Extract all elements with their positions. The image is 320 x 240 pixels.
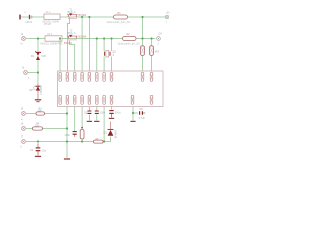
svg-text:4,7uF: 4,7uF bbox=[139, 117, 146, 120]
svg-text:C3: C3 bbox=[84, 112, 88, 115]
fuse F1 cell symbol bbox=[24, 11, 32, 24]
junction row2 x38 bbox=[37, 37, 39, 39]
svg-text:D1: D1 bbox=[31, 55, 35, 58]
wire row y113 bbox=[26, 113, 67, 115]
svg-text:4k7: 4k7 bbox=[155, 51, 160, 54]
wire row y141 bbox=[26, 137, 111, 142]
wire vertical x111 bbox=[111, 39, 113, 72]
resistor R7 vertical x142 bbox=[141, 46, 145, 56]
junction row2 x151 bbox=[150, 37, 152, 39]
ground GND7 x133 bbox=[130, 120, 135, 122]
svg-text:X2-1: X2-1 bbox=[47, 33, 53, 36]
crystal Q2 bbox=[105, 50, 117, 57]
svg-text:R2: R2 bbox=[127, 33, 131, 36]
junction node x38 y72 bbox=[37, 71, 39, 73]
connector X2 box bbox=[41, 33, 63, 46]
capacitor C1 polarized bbox=[30, 144, 47, 156]
svg-text:BSS84: BSS84 bbox=[79, 36, 87, 39]
ground GND6 x111 bbox=[109, 117, 114, 119]
svg-text:J6: J6 bbox=[21, 122, 24, 125]
junction x82 y141 bbox=[81, 140, 83, 142]
svg-text:In: In bbox=[21, 43, 24, 46]
svg-text:1N4148: 1N4148 bbox=[114, 130, 117, 139]
wire bottom net x67 bbox=[66, 107, 68, 159]
resistor R4 row y128 bbox=[33, 122, 43, 130]
resistor R3 row y113 bbox=[36, 107, 45, 115]
resistor R6 row y141 bbox=[94, 138, 104, 143]
svg-text:LiPo4: LiPo4 bbox=[26, 21, 33, 24]
battery terminal BAT bbox=[19, 15, 21, 20]
svg-text:1: 1 bbox=[166, 21, 168, 24]
wire vertical x104 bbox=[103, 39, 105, 72]
svg-text:BSS84: BSS84 bbox=[64, 42, 72, 45]
wire row1 horizontal bbox=[21, 16, 165, 18]
svg-text:D2: D2 bbox=[30, 89, 34, 92]
wire column x133 bbox=[133, 107, 138, 121]
ground GND3 x67 bbox=[64, 158, 70, 160]
junction x67 y113 bbox=[66, 112, 68, 114]
svg-text:b: b bbox=[21, 146, 23, 149]
svg-text:Optocoupler_4pin_SO: Optocoupler_4pin_SO bbox=[107, 21, 131, 24]
transistor T2 bbox=[64, 30, 87, 45]
junction row1 x82 bbox=[81, 16, 83, 18]
supply pin P1 top right bbox=[165, 12, 170, 24]
junction x104 y141 bbox=[103, 140, 105, 142]
wire cap lead x97 low bbox=[96, 115, 98, 121]
connector pin J6 bbox=[21, 122, 26, 130]
resistor R5 vertical x82 bbox=[80, 127, 84, 139]
transistor T1 bbox=[67, 8, 87, 18]
junction row2 x60 bbox=[59, 37, 61, 39]
wire vertical x97 bbox=[96, 39, 98, 72]
junction row2 x104 bbox=[103, 37, 105, 39]
zener diode D1 bbox=[31, 51, 47, 60]
ground GND5 x97 bbox=[94, 120, 99, 122]
wire vertical x89 bbox=[88, 17, 90, 72]
svg-text:Optocoupler_pin_SO: Optocoupler_pin_SO bbox=[118, 42, 140, 45]
resistor R8 vertical x151 bbox=[150, 46, 160, 56]
svg-text:100n: 100n bbox=[65, 134, 71, 137]
wire vertical x142 top bbox=[142, 17, 144, 72]
svg-text:BSS_A: BSS_A bbox=[68, 32, 76, 35]
wire cap stub x97 bbox=[96, 107, 98, 111]
svg-text:C1: C1 bbox=[30, 149, 34, 152]
svg-text:R1: R1 bbox=[118, 12, 122, 15]
capacitor C5 x111 polarized bbox=[109, 111, 121, 118]
LED D2 bbox=[30, 86, 42, 95]
IC bottom row pins bbox=[59, 95, 153, 104]
capacitor C2 x75 bbox=[65, 132, 77, 138]
wire vertical x104 bottom bbox=[103, 107, 105, 142]
wire cap stub x75 bbox=[74, 107, 76, 132]
junction x67 y128 bbox=[66, 127, 68, 129]
resistor R1 bbox=[107, 12, 131, 24]
wire resistor stub x82 bbox=[81, 107, 83, 142]
connector pin J7 bbox=[21, 135, 26, 148]
wire connector J3 to node bbox=[28, 72, 38, 74]
junction row2 x142 bbox=[141, 37, 143, 39]
wire vertical x60 bbox=[59, 39, 61, 72]
capacitor C3 x89 bbox=[84, 111, 91, 115]
svg-text:10u: 10u bbox=[42, 149, 47, 152]
svg-text:+: + bbox=[24, 11, 26, 14]
svg-text:J2: J2 bbox=[21, 33, 24, 36]
svg-text:a: a bbox=[21, 118, 23, 121]
junction row2 x111 bbox=[110, 37, 112, 39]
svg-text:s: s bbox=[28, 77, 30, 80]
connector pin J3 bbox=[22, 67, 31, 80]
connector pin P2 right bbox=[157, 32, 163, 45]
junction row1 x89 bbox=[88, 16, 90, 18]
svg-text:100n: 100n bbox=[115, 111, 121, 114]
svg-text:J5: J5 bbox=[21, 107, 24, 110]
svg-text:D3: D3 bbox=[104, 131, 108, 134]
svg-text:X1-1: X1-1 bbox=[46, 11, 52, 14]
wire left column x38 bbox=[37, 39, 39, 84]
wire column x111 bottom bbox=[111, 107, 113, 110]
IC top row pins bbox=[59, 72, 153, 81]
wire vertical x151 bbox=[151, 39, 153, 72]
IC main module U1 bbox=[58, 71, 164, 107]
svg-text:C6: C6 bbox=[140, 108, 144, 111]
wire T2 gate jog x75 bbox=[70, 41, 75, 72]
wire row y128 bbox=[26, 128, 67, 130]
svg-text:100n: 100n bbox=[100, 112, 106, 115]
svg-text:5V6: 5V6 bbox=[42, 55, 47, 58]
svg-text:MOLEX_53048-PH2: MOLEX_53048-PH2 bbox=[41, 43, 63, 46]
svg-text:+5V: +5V bbox=[166, 12, 171, 15]
svg-text:2: 2 bbox=[158, 42, 160, 45]
ground GND4 x89 bbox=[87, 120, 92, 122]
svg-text:BSS84: BSS84 bbox=[79, 14, 87, 17]
svg-text:J7: J7 bbox=[21, 135, 24, 138]
connector pin J2 bbox=[21, 33, 26, 46]
ground GND2 bbox=[35, 155, 41, 157]
wire vertical x82 bbox=[81, 17, 83, 72]
wire cap lead x89 low bbox=[88, 115, 90, 121]
ground GND1 bbox=[35, 100, 41, 102]
diode D3 x111 bbox=[104, 122, 117, 139]
wire row2 horizontal bbox=[26, 38, 155, 40]
junction x38 y141 bbox=[37, 140, 39, 142]
junction x133 y113 bbox=[132, 112, 134, 114]
connector pin J5 bbox=[21, 107, 26, 121]
svg-text:PH-2P: PH-2P bbox=[44, 23, 51, 26]
junction row2 x97 bbox=[96, 37, 98, 39]
junction row1 x142 bbox=[141, 16, 143, 18]
junction x67 y141 bbox=[66, 140, 68, 142]
wire cap stub x89 bbox=[88, 107, 90, 111]
resistor R2 bbox=[118, 33, 140, 45]
svg-text:GREEN: GREEN bbox=[39, 86, 42, 95]
connector X1 box bbox=[43, 11, 61, 26]
svg-text:2: 2 bbox=[113, 54, 115, 57]
wire T1 gate jog x67 bbox=[67, 17, 69, 72]
capacitor C6 horizontal at x140 bbox=[139, 108, 146, 120]
svg-text:C4: C4 bbox=[159, 32, 163, 35]
capacitor C4 x97 bbox=[95, 111, 106, 115]
svg-text:J3: J3 bbox=[22, 67, 25, 70]
